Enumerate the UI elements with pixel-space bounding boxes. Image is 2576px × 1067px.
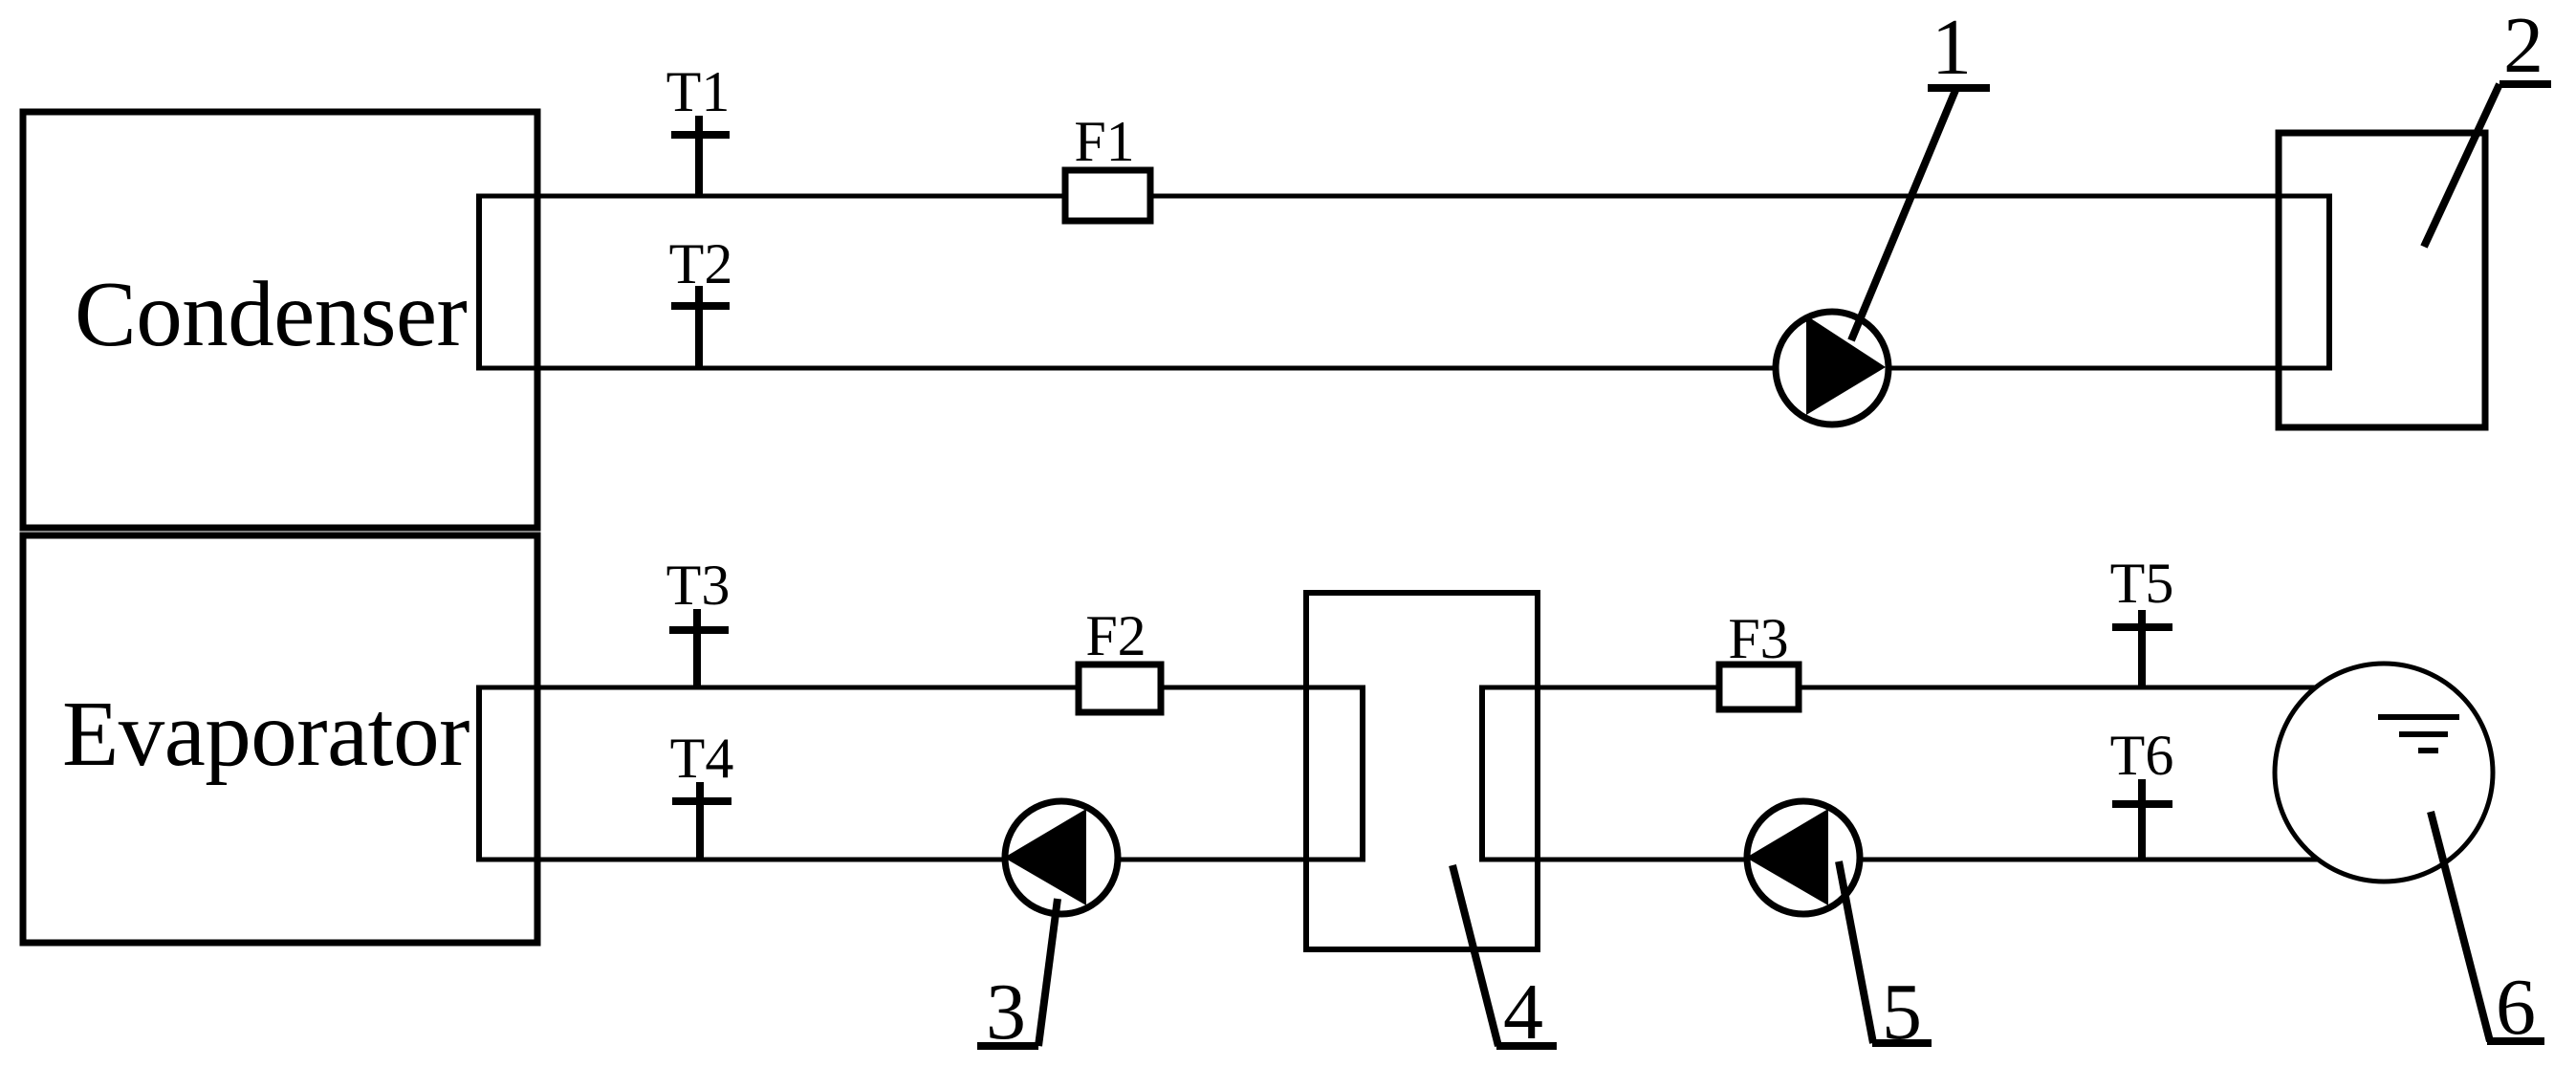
sensor T6 crossbar	[2112, 800, 2172, 808]
water level symbol long line	[2378, 714, 2459, 720]
sensor T1 crossbar	[671, 131, 730, 139]
wire: pipe closing edge inside tank left	[1360, 686, 1365, 862]
sensor T5 crossbar	[2112, 623, 2172, 631]
sensor T6 stub	[2138, 779, 2146, 860]
leader line 4	[1452, 865, 1498, 1046]
svg-text:6: 6	[2496, 963, 2536, 1052]
pump 5 circle	[1747, 801, 1860, 914]
svg-text:F2: F2	[1085, 604, 1146, 667]
svg-text:5: 5	[1882, 968, 1922, 1056]
condenser box	[23, 112, 537, 528]
sensor T3 crossbar	[669, 626, 729, 634]
svg-text:T6: T6	[2110, 724, 2174, 787]
svg-text:Condenser: Condenser	[75, 263, 468, 365]
svg-text:2: 2	[2503, 1, 2543, 90]
wire: condenser top pipe upper line	[479, 194, 2329, 199]
flow meter F3	[1719, 664, 1799, 709]
wire: pipe closing edge inside tank right	[1479, 686, 1485, 862]
svg-text:4: 4	[1503, 968, 1543, 1056]
svg-text:T1: T1	[666, 60, 731, 123]
leader line 6	[2431, 812, 2490, 1041]
tank 4	[1306, 593, 1538, 949]
leader line 1	[1851, 88, 1956, 340]
pump 3 circle	[1005, 801, 1118, 914]
wire: evaporator pipe lower line left segment	[479, 858, 1363, 862]
wire: evaporator pipe left closing edge	[476, 686, 482, 862]
wire: tank-to-circle pipe upper line	[1482, 686, 2343, 690]
leader underline 1	[1928, 84, 1990, 92]
water level symbol short line	[2418, 748, 2438, 753]
svg-text:F1: F1	[1074, 110, 1134, 173]
sensor T4 crossbar	[672, 797, 731, 805]
svg-text:T3: T3	[666, 554, 731, 617]
svg-text:T5: T5	[2110, 552, 2174, 615]
sensor T5 stub	[2138, 610, 2146, 687]
svg-text:T2: T2	[669, 232, 733, 295]
leader underline 5	[1872, 1039, 1932, 1047]
wire: evaporator pipe upper line left segment	[479, 686, 1363, 690]
leader underline 4	[1496, 1042, 1557, 1050]
wire: tank-to-circle pipe lower line	[1482, 858, 2343, 862]
leader line 3	[1038, 899, 1058, 1046]
pump 1 triangle	[1806, 316, 1886, 415]
leader underline 3	[977, 1042, 1038, 1050]
sensor T1 stub	[695, 116, 703, 196]
leader line 2	[2424, 84, 2500, 247]
wire: top pipe left closing edge	[476, 194, 482, 371]
svg-text:T4: T4	[670, 727, 734, 790]
wire: top pipe right closing edge	[2326, 194, 2332, 371]
circle 6 (water tank)	[2275, 664, 2493, 882]
sensor T4 stub	[696, 782, 704, 860]
pump 3 triangle	[1004, 809, 1086, 905]
svg-text:Evaporator: Evaporator	[62, 683, 469, 785]
evaporator box	[23, 535, 537, 943]
water level symbol middle line	[2399, 731, 2448, 737]
pump 1 circle	[1776, 312, 1888, 425]
flow meter F2	[1079, 664, 1161, 712]
leader underline 6	[2487, 1037, 2544, 1045]
svg-text:1: 1	[1932, 3, 1972, 92]
svg-text:3: 3	[986, 968, 1026, 1056]
leader line 5	[1839, 861, 1873, 1043]
wire: condenser top pipe lower line	[479, 366, 2329, 371]
leader underline 2	[2500, 80, 2551, 88]
flow meter F1	[1065, 170, 1150, 221]
sensor T3 stub	[693, 609, 701, 687]
box 2 (cooling tower)	[2279, 133, 2485, 427]
svg-text:F3: F3	[1728, 607, 1788, 670]
pump 5 triangle	[1746, 809, 1828, 905]
sensor T2 crossbar	[671, 302, 730, 310]
sensor T2 stub	[695, 286, 703, 368]
